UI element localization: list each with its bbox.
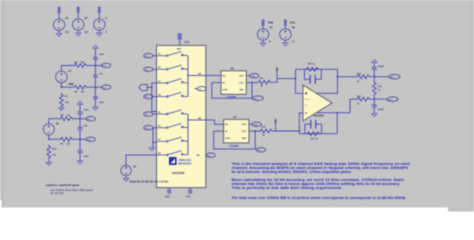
label R13 1k <box>378 86 383 92</box>
svg-text:VDD: VDD <box>184 41 189 44</box>
resistor R17 (bottom feedback) <box>306 132 320 136</box>
op-amp input marks <box>305 92 308 113</box>
annotation paragraph 2 <box>232 178 405 190</box>
svg-text:VDD: VDD <box>239 89 244 91</box>
pin VDD stub on top of U3 <box>179 41 181 46</box>
net tag on mux edge (row B drain aux) <box>206 153 216 157</box>
label V8 <box>56 123 60 126</box>
spice directive .tran <box>50 189 94 192</box>
net tag S5 input <box>144 112 157 116</box>
op-amp internal pin marks <box>305 99 310 107</box>
label R14 33 <box>357 72 362 83</box>
ground under C7 <box>93 107 98 110</box>
ground under V2 <box>76 33 81 36</box>
label V3 <box>106 16 108 34</box>
svg-text:This is perfectly in line with: This is perfectly in line with ADC timin… <box>232 186 343 190</box>
ground under V5 <box>260 43 265 46</box>
part number under U9 <box>229 146 239 148</box>
net tag S2 input <box>144 67 157 71</box>
wire opamp out+ <box>317 69 338 93</box>
multiplexer U3 body <box>157 45 206 187</box>
net tag U8 feedback <box>253 96 264 101</box>
switch S4 <box>157 92 189 97</box>
wire opamp out- <box>317 99 356 113</box>
wire opamp -in <box>298 113 303 134</box>
inverted ground above C5 <box>93 45 98 48</box>
label R5 100 <box>75 62 85 64</box>
svg-text:R17 1k: R17 1k <box>311 139 319 141</box>
svg-text:for all 8 channels. Selecting: for all 8 channels. Selecting AD4022, 50… <box>232 170 353 174</box>
svg-text:IN1+: IN1+ <box>103 66 108 68</box>
svg-text:INP: INP <box>275 67 279 72</box>
net flag VSS above V6 <box>284 19 287 26</box>
wire bus A to IC1 <box>188 74 221 76</box>
capacitor C11 (parallel with R16) <box>305 69 322 83</box>
net tag U9 out <box>252 122 261 126</box>
annotation paragraph 1 <box>232 162 411 174</box>
capacitor C7 bottom <box>93 87 98 107</box>
net tag on mux edge (row A drain aux) <box>195 87 207 91</box>
voltage source V6 (VSS supply) <box>280 26 291 43</box>
resistor R16 (top feedback) <box>305 67 319 71</box>
net tag S1 input <box>144 54 157 58</box>
svg-text:DB: DB <box>208 155 212 157</box>
ground under V3 <box>97 33 102 36</box>
label R12 <box>262 127 267 137</box>
net tag U9 feedback <box>256 148 266 152</box>
wire V8 bottom leg <box>48 135 59 140</box>
label R16 1k <box>308 64 316 66</box>
svg-text:SINE: SINE <box>68 83 74 86</box>
label C8 10nF <box>84 109 90 111</box>
label C13 150pF <box>378 66 385 68</box>
label R15 33 <box>357 96 362 106</box>
wire U8 in- feedback loop <box>212 82 253 99</box>
capacitor C13 (out+ to inverted ground) <box>372 63 377 77</box>
wire V8 top to R8 <box>49 119 59 124</box>
net flag VDD above U3 <box>177 33 189 44</box>
ground under V6 <box>283 43 288 46</box>
svg-text:R16 1k: R16 1k <box>308 64 316 66</box>
svg-text:DEVICES: DEVICES <box>178 162 191 166</box>
net flag IN2 above V2 <box>77 6 80 13</box>
switch S8 <box>157 151 189 156</box>
svg-text:IN2+: IN2+ <box>145 97 150 99</box>
spice directive .options <box>45 183 80 187</box>
svg-text:INN: INN <box>274 119 278 124</box>
svg-text:VCM: VCM <box>225 138 230 140</box>
net flag post INN <box>274 119 278 131</box>
svg-text:VSS: VSS <box>186 195 191 198</box>
svg-text:IN2-: IN2- <box>87 139 91 141</box>
capacitor C9 (differential) <box>78 119 83 140</box>
wire bus B out of U3 <box>188 120 224 124</box>
svg-text:LTC6363: LTC6363 <box>229 146 239 148</box>
ground under C10 <box>77 161 82 164</box>
wire R6 to node <box>87 86 102 88</box>
resistor R7 (vertical under V7) <box>60 93 64 107</box>
resistor R5 <box>73 64 87 68</box>
net flag VSS below U3 <box>186 189 193 198</box>
inverted ground above C13 <box>372 60 377 63</box>
svg-text:AIN-: AIN- <box>388 98 393 101</box>
voltage source V3 <box>94 13 105 33</box>
inverted ground above C8 <box>77 101 82 104</box>
annotation paragraph 3 <box>232 196 407 200</box>
svg-text:OAN: OAN <box>253 123 258 126</box>
ground under R7 <box>59 107 64 111</box>
net tag AIN- <box>387 97 398 102</box>
capacitor C8 top (to inverted ground) <box>78 105 83 119</box>
svg-text:IN1-: IN1- <box>103 87 107 89</box>
label R8 100 <box>61 115 71 117</box>
svg-text:OUT: OUT <box>242 131 247 133</box>
svg-text:150pF: 150pF <box>378 109 385 111</box>
ADI logo on U3 <box>169 157 192 166</box>
label C5 10nF <box>99 54 105 56</box>
label U9 <box>233 116 237 119</box>
svg-text:1nF: 1nF <box>84 126 89 128</box>
wire R5 to node <box>87 65 102 67</box>
wire U9 out mid to R12 <box>249 130 261 132</box>
svg-text:VSS: VSS <box>290 20 295 24</box>
svg-text:OAP: OAP <box>251 75 256 78</box>
capacitor C6 (differential) <box>93 66 98 88</box>
port flag S3 input <box>139 84 153 90</box>
net tag OUT1P <box>102 63 111 67</box>
svg-text:DA: DA <box>198 88 202 91</box>
wire opamp +in <box>295 69 303 93</box>
label C14 150pF <box>378 109 385 111</box>
resistor R12 <box>259 129 273 133</box>
label V2 <box>84 16 88 34</box>
label C7 10nF <box>99 102 105 104</box>
svg-text:GND: GND <box>165 195 171 198</box>
svg-text:ADG5208F: ADG5208F <box>172 172 185 175</box>
capacitor C10 bottom <box>78 139 83 161</box>
value text left of U3 <box>130 181 169 184</box>
net tag S4 input <box>144 94 157 98</box>
net tag S6 input <box>144 126 157 130</box>
switch S6 <box>157 124 189 129</box>
svg-text:Vocm: Vocm <box>305 99 310 101</box>
label R17 1k <box>311 139 319 141</box>
net tag OUT1N <box>102 85 111 89</box>
svg-text:.options method=gear: .options method=gear <box>45 183 80 187</box>
net tag OUT2N <box>86 137 95 141</box>
label R7 10k <box>65 96 69 104</box>
svg-text:IN2-: IN2- <box>145 114 149 116</box>
part number ADA4940 <box>314 115 325 118</box>
label C6 <box>99 73 104 75</box>
label R9 100 <box>61 143 71 145</box>
resistor R8 <box>59 117 73 121</box>
net tag AIN+ <box>389 74 400 79</box>
voltage source V2 <box>73 13 84 33</box>
svg-text:OUT: OUT <box>239 76 244 78</box>
bus B vertical wire <box>187 114 189 155</box>
svg-text:ADA4940: ADA4940 <box>314 115 325 118</box>
part number under U8 <box>227 97 237 99</box>
svg-text:V2: V2 <box>84 16 88 20</box>
svg-text:IN-: IN- <box>223 83 226 85</box>
wire S6 to S7 with ground <box>152 128 156 148</box>
svg-text:1nF: 1nF <box>99 73 104 75</box>
svg-text:AIN+: AIN+ <box>390 76 396 79</box>
net tag OUT2P <box>86 117 95 121</box>
wire R9 to node <box>73 138 86 140</box>
svg-text:IN3+: IN3+ <box>145 128 150 130</box>
switch S1 <box>157 52 189 57</box>
wire R11 to opamp input <box>271 79 296 83</box>
feedback bottom wire <box>299 133 337 135</box>
svg-text:150pF: 150pF <box>378 66 385 68</box>
label R10 10k <box>52 148 57 156</box>
wire R12 to opamp input <box>273 130 300 132</box>
wire R8 to node <box>73 118 86 120</box>
net flag post INP <box>275 67 279 79</box>
voltage source V1 <box>53 13 64 33</box>
svg-text:10nF: 10nF <box>84 156 90 158</box>
pin names U9 <box>225 124 247 140</box>
pin label EN inside U3 <box>197 155 200 157</box>
wire V7 bottom leg <box>61 83 73 88</box>
svg-text:V5: V5 <box>269 26 273 30</box>
svg-text:10nF: 10nF <box>99 54 105 56</box>
svg-text:VDD: VDD <box>268 20 274 24</box>
label V7 <box>68 70 74 86</box>
resistor R9 <box>59 137 73 141</box>
ground under V1 <box>56 33 61 36</box>
label C9 <box>84 126 89 128</box>
label V5 <box>268 20 274 43</box>
svg-text:OUT: OUT <box>242 124 247 126</box>
resistor R15 <box>356 97 370 101</box>
voltage source V4 (mux channel drive) <box>121 165 131 175</box>
voltage source V8 (signal source 2) <box>43 124 54 135</box>
spice directive .four <box>50 192 64 195</box>
svg-text:Model D2 LAT (8ki 3ki: 5Vo 1.5: Model D2 LAT (8ki 3ki: 5Vo 1.5k 5ki) <box>130 181 169 184</box>
svg-text:IN1-: IN1- <box>145 69 149 71</box>
svg-text:VDD: VDD <box>242 138 247 140</box>
label V4 <box>133 165 137 168</box>
label V6 <box>290 20 295 43</box>
svg-text:10nF: 10nF <box>99 102 105 104</box>
net flag IN3 above V3 <box>98 6 101 13</box>
capacitor C14 (out- to ground) <box>372 99 377 113</box>
voltage source V5 (VDD supply) <box>257 26 268 43</box>
wire V4 to mux S8 <box>126 155 157 165</box>
resistor R14 <box>356 75 370 79</box>
pin VSS stub below U3 <box>189 188 191 191</box>
svg-text:.four 100 V(out): .four 100 V(out) <box>50 192 64 195</box>
capacitor C12 (parallel with R17) <box>305 120 322 134</box>
svg-text:2.5: 2.5 <box>84 30 88 34</box>
label R11 <box>260 78 265 88</box>
ground under C14 <box>372 114 377 117</box>
net flag VDD above V5 <box>262 19 265 26</box>
pin label VDD inside U3 <box>177 49 182 51</box>
voltage source V7 (signal source 1) <box>56 71 68 83</box>
part number ADG5208F <box>172 172 185 175</box>
capacitor C5 top (to inverted ground) <box>93 49 98 66</box>
pin GND stub below U3 <box>168 188 170 191</box>
svg-text:V1: V1 <box>65 16 69 20</box>
ground under V4 <box>123 178 128 181</box>
svg-text:10nF: 10nF <box>84 109 90 111</box>
wire out+ to R14 <box>338 76 357 78</box>
wire U9 out top to tag <box>249 123 252 125</box>
label U8 <box>231 67 235 70</box>
svg-text:V6: V6 <box>292 26 296 30</box>
net tag U8 out <box>250 74 259 78</box>
op-amp U10 triangle <box>303 85 332 121</box>
wire R15 to node and tag <box>370 98 387 100</box>
svg-text:IN1+: IN1+ <box>145 56 150 58</box>
switch S5 <box>157 110 189 115</box>
svg-text:IN2+: IN2+ <box>87 119 92 121</box>
resistor R11 <box>257 80 271 84</box>
wire U8 out mid to R11 <box>246 82 256 84</box>
svg-text:OUT: OUT <box>239 83 244 85</box>
svg-text:EN: EN <box>197 155 200 157</box>
label R6 100 <box>75 91 85 93</box>
ground on S7 input <box>149 148 154 151</box>
IC U9 body <box>224 119 249 142</box>
svg-text:The total noise over 100kHz BW: The total noise over 100kHz BW is 13.2uV… <box>232 196 407 200</box>
wire U8 out top to tag <box>246 75 249 77</box>
pin names U8 <box>223 76 245 92</box>
ground under R10 <box>46 159 51 166</box>
wire S3 flag down to S5 row <box>152 83 157 112</box>
bus A vertical wire <box>187 56 189 97</box>
label C10 10nF <box>84 156 90 158</box>
wire V4 bottom <box>125 176 127 179</box>
switch S2 <box>157 65 189 70</box>
pin label DB inside U3 <box>198 118 202 120</box>
feedback top wire <box>296 68 338 70</box>
svg-text:VCM: VCM <box>223 89 228 91</box>
svg-text:IN-: IN- <box>225 131 228 133</box>
resistor R10 (vertical under V8) <box>47 145 51 159</box>
wire U9 in- feedback loop <box>214 130 256 149</box>
wire V7 top to R5 <box>61 66 73 72</box>
switch S3 <box>157 79 189 84</box>
resistor R13 (differential across outputs) <box>372 77 376 100</box>
resistor R6 <box>73 85 87 89</box>
wire R14 to node and tag <box>370 76 389 78</box>
IC U8 body <box>221 71 246 95</box>
ground flag below U3 <box>165 189 172 198</box>
svg-text:2.5: 2.5 <box>65 30 69 34</box>
switch S7 <box>157 137 189 142</box>
svg-text:VDD: VDD <box>177 49 182 51</box>
net flag IN1 above V1 <box>58 7 61 14</box>
pin label DA inside U3 <box>198 72 202 75</box>
label V1 <box>65 16 69 34</box>
wire out- feedback vertical <box>336 113 338 134</box>
